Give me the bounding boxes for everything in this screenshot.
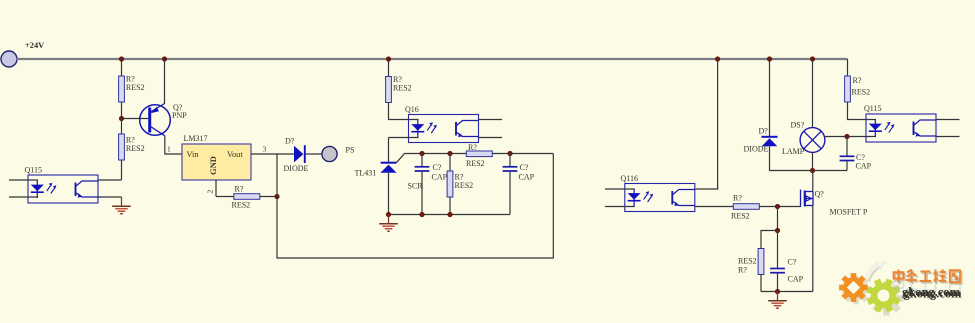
wire Q1 collector to LM317 Vin (165, 136, 182, 154)
svg-text:+24V: +24V (25, 41, 44, 50)
wire ADJ node down and across to feedback (277, 154, 553, 259)
junction rail at D2 (767, 56, 772, 61)
junction rail at lamp (810, 56, 815, 61)
svg-text:RES2: RES2 (126, 144, 145, 153)
capacitor C2 (C? CAP) (509, 154, 511, 167)
transistor Q1 (Q? PNP) (140, 104, 171, 136)
svg-text:LAMP: LAMP (782, 147, 805, 156)
wire D2 anode down (770, 146, 848, 170)
svg-text:Vout: Vout (227, 150, 243, 159)
ground at opto Q115 (112, 197, 131, 214)
junction on rail at Q1 emitter (162, 56, 167, 61)
orange gear (839, 273, 868, 302)
power terminal +24V (1, 51, 17, 67)
wire R7 to MOSFET gate (759, 206, 800, 208)
svg-text:C?: C? (520, 163, 529, 172)
svg-text:R?: R? (235, 185, 244, 194)
wire gate node down to RC (777, 207, 779, 231)
resistor R1 (R? RES2) (119, 76, 125, 102)
wire lamp right to cap node (824, 136, 876, 138)
wire bottom net (389, 214, 511, 216)
svg-text:3: 3 (263, 145, 267, 154)
wire base node to R2 (121, 119, 123, 135)
junction base node (119, 116, 124, 121)
junction ref wire at C2 (507, 151, 512, 156)
terminal PS (322, 146, 337, 161)
curved arrow (867, 265, 880, 282)
svg-text:C?: C? (788, 258, 797, 267)
resistor R9 (RES2 R?) (758, 249, 764, 275)
wire R1 bottom to base node (121, 102, 123, 119)
svg-text:1: 1 (167, 145, 171, 154)
svg-text:Q16: Q16 (405, 105, 419, 114)
svg-text:R?: R? (468, 143, 477, 152)
resistor R4 (R? RES2) (386, 77, 392, 103)
junction ADJ node (274, 194, 279, 199)
junction lamp bottom node (810, 168, 815, 173)
svg-text:RES2: RES2 (126, 83, 145, 92)
svg-text:2: 2 (206, 190, 215, 194)
svg-text:PS: PS (346, 146, 355, 155)
svg-text:SCR: SCR (408, 182, 424, 191)
resistor R8 (R? RES2) top right (847, 59, 849, 76)
wire opto left pins (9, 179, 38, 181)
wire opto Q16 LED cathode to TL431 (389, 137, 419, 139)
svg-text:R?: R? (733, 194, 742, 203)
capacitor C1 (C? CAP) (421, 154, 423, 167)
svg-text:gkong.com: gkong.com (902, 285, 961, 299)
svg-text:Q116: Q116 (621, 174, 638, 183)
opto Q115 right (866, 114, 936, 142)
resistor R6 horizontal (R? RES2) (466, 151, 492, 157)
wire D1 to PS terminal (306, 153, 322, 155)
lamp DS? (800, 128, 825, 153)
ground at TL431 (379, 215, 398, 232)
junction gate node (775, 204, 780, 209)
svg-text:GND: GND (209, 156, 218, 175)
wire lamp node to MOSFET drain (812, 171, 814, 192)
svg-text:D?: D? (285, 137, 295, 146)
svg-text:RES2: RES2 (852, 88, 871, 97)
wire rail drop to R4 (388, 59, 390, 77)
wire Q116 emitter to gate resistor (695, 206, 734, 208)
transistor Q2 MOSFET P (801, 190, 814, 208)
svg-text:Q115: Q115 (864, 104, 881, 113)
wire rail to Q116 collector (695, 59, 718, 189)
chinese text 中华工控网 shadow (895, 271, 961, 284)
gear shadows (842, 276, 871, 305)
junction ref wire at R5 (447, 151, 452, 156)
wire R2 bottom to opto collector (121, 160, 123, 180)
junction bottom net at TL431 (386, 212, 391, 217)
wire rail to D2 (769, 59, 771, 136)
op-amp U1 LM317 body (182, 144, 251, 180)
junction bottom net at R5 (447, 212, 452, 217)
svg-text:DS?: DS? (791, 121, 805, 130)
svg-text:CAP: CAP (856, 162, 872, 171)
svg-text:PNP: PNP (172, 111, 187, 120)
svg-text:LM317: LM317 (184, 134, 208, 143)
svg-text:RES2: RES2 (232, 201, 251, 210)
svg-text:Vin: Vin (187, 150, 200, 159)
capacitor C3 (C? CAP) (846, 137, 848, 157)
junction on rail at R1 (119, 56, 124, 61)
opto Q16 (409, 115, 479, 143)
junction ref wire at C1 (419, 151, 424, 156)
svg-text:Q115: Q115 (25, 166, 42, 175)
wire TL431 gate (396, 154, 553, 163)
junction bottom net at C1 (419, 212, 424, 217)
junction rail at Q116 (715, 56, 720, 61)
wire lamp bottom (812, 152, 814, 170)
chinese text 中华工控网 (894, 279, 960, 292)
svg-text:RES2: RES2 (393, 84, 412, 93)
svg-text:R?: R? (853, 76, 862, 85)
svg-text:RES2: RES2 (455, 181, 474, 190)
wire R8 to opto Q115 LED (848, 102, 877, 120)
watermark logo gkong (839, 261, 962, 318)
junction cap node (844, 134, 849, 139)
svg-text:C?: C? (433, 163, 442, 172)
svg-text:RES2: RES2 (466, 159, 485, 168)
svg-text:TL431: TL431 (355, 169, 377, 178)
svg-text:MOSFET P: MOSFET P (830, 208, 868, 217)
svg-text:CAP: CAP (432, 173, 448, 182)
svg-text:D?: D? (759, 127, 769, 136)
pin 3 wire (251, 153, 294, 155)
junction on rail at R4 (386, 56, 391, 61)
diode D1 (D? DIODE) (294, 145, 305, 163)
svg-text:CAP: CAP (519, 173, 535, 182)
pin 2 stub (215, 180, 217, 197)
ground at MOSFET source (768, 292, 787, 309)
svg-text:DIODE: DIODE (744, 145, 769, 154)
resistor R3 (R? RES2) adj (216, 196, 234, 198)
green gear (861, 273, 905, 317)
wire to R9 (761, 231, 778, 249)
junction RC bottom (775, 289, 780, 294)
opto Q115 left (28, 175, 98, 203)
wire Vout down to ADJ node (276, 154, 278, 197)
svg-text:DIODE: DIODE (284, 164, 309, 173)
wire opto right stubs (936, 119, 960, 121)
wire rail drop to R1 (121, 59, 123, 76)
wire bottom RC net (761, 291, 813, 293)
svg-text:Q?: Q? (815, 190, 825, 199)
svg-text:R?: R? (738, 266, 747, 275)
wire opto Q16 right stubs (479, 119, 503, 121)
capacitor C4 (C? CAP) (777, 231, 779, 269)
svg-text:R?: R? (455, 173, 464, 182)
opto Q116 (625, 184, 695, 212)
wire base node to Q1 base (122, 118, 149, 120)
wire opto Q116 left stubs (605, 188, 635, 190)
svg-text:RES2: RES2 (738, 257, 757, 266)
resistor R7 gate (R? RES2) (733, 204, 759, 210)
diode D2 (D? DIODE) (762, 137, 778, 147)
wire TL431 anode (388, 173, 390, 215)
thyristor TL431 (SCR) (380, 163, 396, 173)
wire rail to Q1 emitter (164, 59, 166, 104)
svg-text:RES2: RES2 (731, 212, 750, 221)
wire +24V rail (17, 58, 848, 60)
wire opto emitter to ground (98, 196, 122, 198)
resistor R2 (R? RES2) (119, 134, 125, 160)
wire rail to lamp (812, 59, 814, 128)
junction RC top (775, 228, 780, 233)
resistor R5 (R? RES2) (449, 154, 451, 172)
svg-text:CAP: CAP (788, 275, 804, 284)
wire MOSFET source down (812, 206, 814, 292)
wire R4 to opto Q16 LED anode (389, 103, 419, 120)
